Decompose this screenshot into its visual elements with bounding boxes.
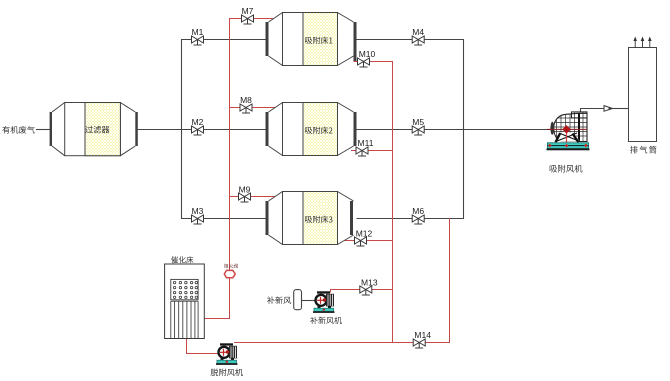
wire bed2 outlet pipe to fan [357, 129, 553, 131]
label text 有机废气 [2, 126, 34, 134]
vessel 吸附床1 [266, 13, 357, 66]
label text 过滤器 [85, 126, 109, 134]
svg-text:M9: M9 [239, 184, 251, 194]
wire bed1 outlet pipe [357, 39, 465, 41]
wire fresh air link pipe [302, 300, 316, 302]
duct from fan to stack with arrow [581, 106, 629, 112]
wire row3 inlet pipe to bed3 [181, 218, 267, 220]
wire red M10 branch from bed1 [354, 61, 393, 63]
valve M2 [192, 117, 204, 135]
wire red desorption fan outlet M14 line [234, 342, 450, 344]
label text 阻火阀 [224, 264, 238, 268]
vessel 吸附床2 [266, 103, 357, 156]
svg-text:M3: M3 [192, 206, 204, 216]
svg-text:M11: M11 [358, 138, 374, 148]
wire red desorption header M8 branch [229, 107, 276, 109]
wire red M13 branch from fresh air fan [331, 290, 393, 293]
wire bed3 outlet pipe [357, 218, 465, 220]
wire red desorption header M7 branch [229, 18, 274, 20]
label text 吸附床2 [305, 127, 332, 134]
svg-text:M5: M5 [412, 117, 424, 127]
svg-text:M1: M1 [192, 27, 204, 37]
valve M9 [239, 184, 251, 202]
valve M12 [355, 228, 373, 246]
wire left manifold vertical [181, 39, 183, 219]
svg-text:M8: M8 [240, 95, 252, 105]
wire red collector vertical [392, 61, 394, 343]
svg-text:M2: M2 [192, 117, 204, 127]
label text 脱附风机 [211, 369, 243, 377]
fresh air inlet 补新风 [267, 290, 301, 310]
valve M3 [192, 206, 204, 224]
fan 吸附风机 [547, 111, 590, 172]
wire red M11 branch from bed2 [351, 150, 393, 152]
flame arrester 阻火阀 [224, 264, 238, 278]
valve M11 [356, 138, 374, 156]
svg-text:M6: M6 [412, 206, 424, 216]
valve M14 [413, 330, 431, 348]
wire red vertical header to flame arrester [229, 18, 231, 319]
vessel 过滤器 [50, 103, 138, 156]
wire inlet pipe from 有机废气 to filter [36, 129, 50, 131]
wire red desorption header M9 branch [229, 196, 276, 198]
label text 吸附风机 [550, 165, 583, 173]
wire red catalytic bed drop to desorption fan [187, 339, 218, 354]
label text 催化床 [171, 256, 193, 263]
label text 补新风 [267, 296, 291, 304]
vessel 吸附床3 [266, 192, 354, 245]
label text 吸附床1 [305, 37, 332, 44]
valve M10 [358, 49, 376, 67]
wire main pipe row2 filter to bed2 [138, 129, 266, 131]
valve M13 [360, 278, 378, 296]
wire red M12 branch from bed3 [345, 240, 393, 242]
svg-text:M7: M7 [242, 6, 254, 16]
label text 排气筒 [630, 146, 656, 154]
wire row1 inlet pipe to bed1 [181, 39, 267, 41]
svg-text:M10: M10 [359, 49, 376, 59]
wire red spur into catalytic bed [204, 318, 229, 320]
valve M6 [412, 206, 424, 224]
vessel 催化床 catalytic bed [165, 256, 205, 338]
valve M5 [412, 117, 424, 135]
label text 补新风机 [310, 317, 342, 324]
fan 补新风机 [310, 291, 342, 324]
valve M4 [412, 27, 424, 45]
wire red return vertical to M6 row [449, 218, 451, 343]
svg-text:M4: M4 [412, 27, 424, 37]
fan 脱附风机 [211, 343, 243, 376]
valve M1 [192, 27, 204, 45]
svg-text:M14: M14 [414, 330, 431, 340]
label text 吸附床3 [305, 216, 332, 223]
valve M7 [242, 6, 254, 24]
svg-text:M12: M12 [356, 228, 373, 238]
wire right manifold vertical [463, 39, 465, 219]
valve M8 [240, 95, 252, 113]
stack 排气筒 [629, 37, 657, 154]
svg-text:M13: M13 [361, 278, 378, 288]
